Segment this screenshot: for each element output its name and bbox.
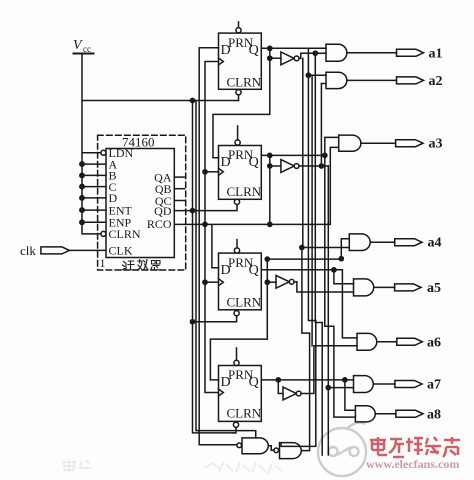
- svg-text:CLRN: CLRN: [227, 295, 262, 310]
- svg-text:www.elecfans.com: www.elecfans.com: [366, 457, 459, 471]
- wire Q1 to FF2 D: [213, 48, 270, 158]
- U4 CLRN bubble: [234, 311, 239, 316]
- U3 PRN bubble: [235, 140, 240, 145]
- watermark ghost text bottom-left: [62, 459, 283, 474]
- node clk-FF2: [203, 170, 207, 174]
- node A: [80, 162, 84, 166]
- node inv2 tap: [268, 164, 272, 168]
- inverter U8: [276, 275, 294, 288]
- wire inv1 input: [270, 57, 281, 59]
- node Q2: [268, 153, 272, 157]
- wire QC stub: [174, 200, 184, 202]
- wire a3 out: [361, 142, 396, 144]
- node RCO-clock: [203, 222, 207, 226]
- wire clk to FF2: [205, 171, 219, 173]
- wire a6 out: [378, 341, 397, 343]
- svg-text:a1: a1: [429, 46, 443, 61]
- nand gate G1 (AND with inverted input): [237, 438, 268, 454]
- svg-text:QD: QD: [154, 204, 172, 218]
- wire Q1 line to a1: [261, 47, 326, 49]
- svg-text:a3: a3: [429, 137, 443, 152]
- output tag a7: [395, 381, 422, 388]
- and gate A3: [339, 135, 361, 151]
- wire FF3 CLRN link: [193, 316, 237, 322]
- inverter U7: [281, 160, 299, 173]
- wire inv1' down to a7 lower: [315, 53, 322, 455]
- svg-text:V: V: [73, 38, 83, 53]
- wire pin stub ENT: [82, 209, 106, 211]
- node QD-rail: [190, 209, 194, 213]
- node inv4 tap: [276, 378, 280, 382]
- node Q1: [268, 46, 272, 50]
- pin bubble CLRN: [101, 231, 106, 236]
- wire QD to FF2 CLRN: [174, 204, 237, 210]
- wire QB stub: [174, 188, 184, 190]
- wire Q2 line: [261, 154, 325, 156]
- wire RCO/Q2 to FF3 D: [212, 225, 219, 268]
- counter U1 74160 body: [106, 149, 174, 258]
- pin bubble LDN: [101, 150, 106, 155]
- node Vcc-clear-rail: [190, 98, 194, 102]
- svg-text:Q: Q: [249, 155, 259, 170]
- node a7 lower tap: [326, 386, 330, 390]
- and gate A2: [326, 72, 347, 88]
- wire G1 out to G2 in: [268, 446, 274, 451]
- wire pin stub ENP: [82, 221, 106, 223]
- wire a2 upper tap: [308, 74, 326, 76]
- wire inv4 input: [278, 380, 283, 394]
- svg-text:CLRN: CLRN: [227, 75, 262, 90]
- wire a7 lower: [328, 387, 353, 389]
- svg-text:RCO: RCO: [147, 217, 172, 231]
- watermark text 电子发烧友: [370, 437, 460, 457]
- svg-text:CLRN: CLRN: [227, 184, 262, 199]
- wire a4 out: [370, 241, 394, 243]
- svg-text:a7: a7: [427, 378, 441, 393]
- nand gate G2: [274, 443, 301, 459]
- svg-text:a2: a2: [429, 74, 443, 89]
- U4 PRN bubble: [234, 248, 239, 253]
- output tag a1: [397, 49, 424, 56]
- wire a8 out: [376, 413, 396, 415]
- node Q3-a4 tap: [265, 257, 269, 261]
- wire U2 CLRN to Vcc: [238, 95, 240, 101]
- svg-text:Q: Q: [249, 43, 259, 58]
- node inv2-out: [319, 164, 323, 168]
- svg-text:a8: a8: [427, 407, 441, 422]
- wire inv3 input: [267, 281, 276, 283]
- output tag a6: [397, 338, 423, 345]
- node Q2-a3: [323, 153, 327, 157]
- wire Q2 down to RCO: [269, 155, 271, 224]
- svg-text:D: D: [221, 375, 231, 390]
- U4 clock triangle: [219, 279, 224, 286]
- U2 CLRN bubble: [236, 90, 241, 95]
- wire pin stub A: [82, 163, 106, 165]
- wire inv1 out to a1 lower: [299, 53, 326, 58]
- wire pin stub B: [82, 174, 106, 176]
- wire clk to FF3: [205, 281, 219, 283]
- wire bus filler F2: [311, 75, 313, 346]
- flip-flop U5 body: [219, 366, 262, 422]
- clk input tag: [20, 243, 106, 258]
- node a4-lower: [300, 245, 304, 249]
- node RCO-Q2: [268, 222, 272, 226]
- wire Q3 to FF4 D: [210, 259, 267, 380]
- wire a2 lower from inv2: [321, 84, 326, 167]
- U5 PRN stub: [236, 348, 238, 360]
- and gate A6: [357, 333, 377, 350]
- svg-text:CLRN: CLRN: [227, 406, 262, 421]
- svg-text:CLRN: CLRN: [109, 227, 141, 241]
- and gate A4: [349, 234, 370, 251]
- wire a1 out: [347, 52, 397, 54]
- wire inv3 out to a5 lower: [294, 282, 353, 292]
- wire G2 out feedback to a4 lower: [302, 247, 350, 451]
- node D: [80, 196, 84, 200]
- svg-text:CLK: CLK: [109, 244, 133, 258]
- output tag a8: [396, 410, 423, 417]
- wire inv4 out to a6 lower: [301, 346, 357, 394]
- U3 CLRN bubble: [234, 199, 239, 204]
- counter U1 74160 dashed boundary: [98, 135, 186, 270]
- wire QA stub: [174, 176, 184, 178]
- wire RCO line: [174, 147, 338, 224]
- node Q4-a8: [343, 378, 347, 382]
- wire a7 out: [374, 383, 395, 385]
- wire U5 CLRN to rail: [234, 427, 237, 433]
- svg-text:Q: Q: [249, 375, 259, 390]
- and gate A5: [354, 279, 374, 296]
- U3 PRN stub: [237, 126, 239, 140]
- U3 clock triangle: [219, 168, 224, 175]
- wire pin stub D: [82, 197, 106, 199]
- wire pin stub C: [82, 186, 106, 188]
- svg-text:a6: a6: [427, 335, 441, 350]
- wire clear rail vertical: [193, 101, 234, 433]
- node a4 upper branch: [339, 257, 343, 261]
- U5 clock triangle: [219, 389, 224, 396]
- wire inv2 input: [270, 165, 281, 167]
- inverter U6: [281, 52, 299, 65]
- U4 PRN stub: [236, 240, 238, 248]
- wire feedback V2 to G1 top: [196, 101, 256, 439]
- node Q1-a2: [306, 73, 310, 77]
- U2 PRN bubble: [236, 28, 241, 33]
- wire Vcc to LDN: [82, 152, 101, 154]
- flip-flop U3 body: [219, 146, 262, 200]
- output tag a3: [396, 140, 423, 147]
- and gate A1: [326, 44, 347, 61]
- node B: [80, 173, 84, 177]
- output tag a4: [395, 239, 422, 246]
- node inv1-bus: [313, 51, 317, 55]
- wire Vcc branch to FF1 CLRN: [82, 100, 239, 102]
- node inv1 tap: [268, 56, 272, 60]
- wire bus filler F1: [302, 58, 304, 246]
- label 计数器 (drawn glyphs): [122, 260, 161, 270]
- svg-text:Q: Q: [249, 263, 259, 278]
- wire clock bus: [205, 62, 219, 393]
- node clk-FF3: [203, 280, 207, 284]
- wire Q3 to a5 upper: [334, 270, 354, 284]
- wire a5 out: [374, 286, 395, 288]
- U5 CLRN bubble: [233, 422, 238, 427]
- flip-flop U2 body: [219, 33, 262, 89]
- svg-text:D: D: [221, 155, 231, 170]
- wire Q4 line to a7: [261, 379, 353, 381]
- watermark logo circle: [318, 423, 366, 476]
- svg-text:a5: a5: [427, 281, 441, 296]
- and gate A8: [355, 406, 375, 422]
- wire a4 upper branch vertical: [341, 239, 349, 259]
- node inv3 tap: [265, 280, 269, 284]
- svg-text:D: D: [221, 263, 231, 278]
- wire Q3 line: [261, 270, 357, 338]
- node ENP: [80, 220, 84, 224]
- U2 clock triangle: [219, 58, 224, 65]
- wire Q4 to a8 upper: [345, 380, 356, 410]
- inverter U9: [283, 387, 301, 400]
- wire Q1 down branch: [281, 48, 316, 446]
- svg-text:D: D: [221, 43, 231, 58]
- U5 PRN bubble: [234, 360, 239, 365]
- svg-text:clk: clk: [20, 243, 36, 258]
- wire FF1 D feedback: [199, 48, 237, 445]
- svg-text:a4: a4: [428, 236, 442, 251]
- wire Q2 up to a3 upper and down to a8 lower: [325, 137, 356, 417]
- node C: [80, 184, 84, 188]
- output tag a2: [397, 77, 424, 84]
- wire Q3 tap to a4 column: [267, 258, 341, 260]
- wire inv2 out: [299, 165, 328, 167]
- wire a2 out: [347, 79, 397, 81]
- node ENT: [80, 208, 84, 212]
- svg-text:1: 1: [100, 256, 106, 270]
- node Q3-a5: [332, 268, 336, 272]
- node rail-FF3clrn: [190, 320, 194, 324]
- flip-flop U4 body: [219, 253, 262, 310]
- output tag a5: [395, 284, 421, 291]
- Vcc power symbol: [73, 38, 101, 234]
- U2 PRN stub: [238, 22, 240, 28]
- and gate A7: [354, 376, 374, 393]
- wire inv2' down to bottom: [327, 166, 329, 455]
